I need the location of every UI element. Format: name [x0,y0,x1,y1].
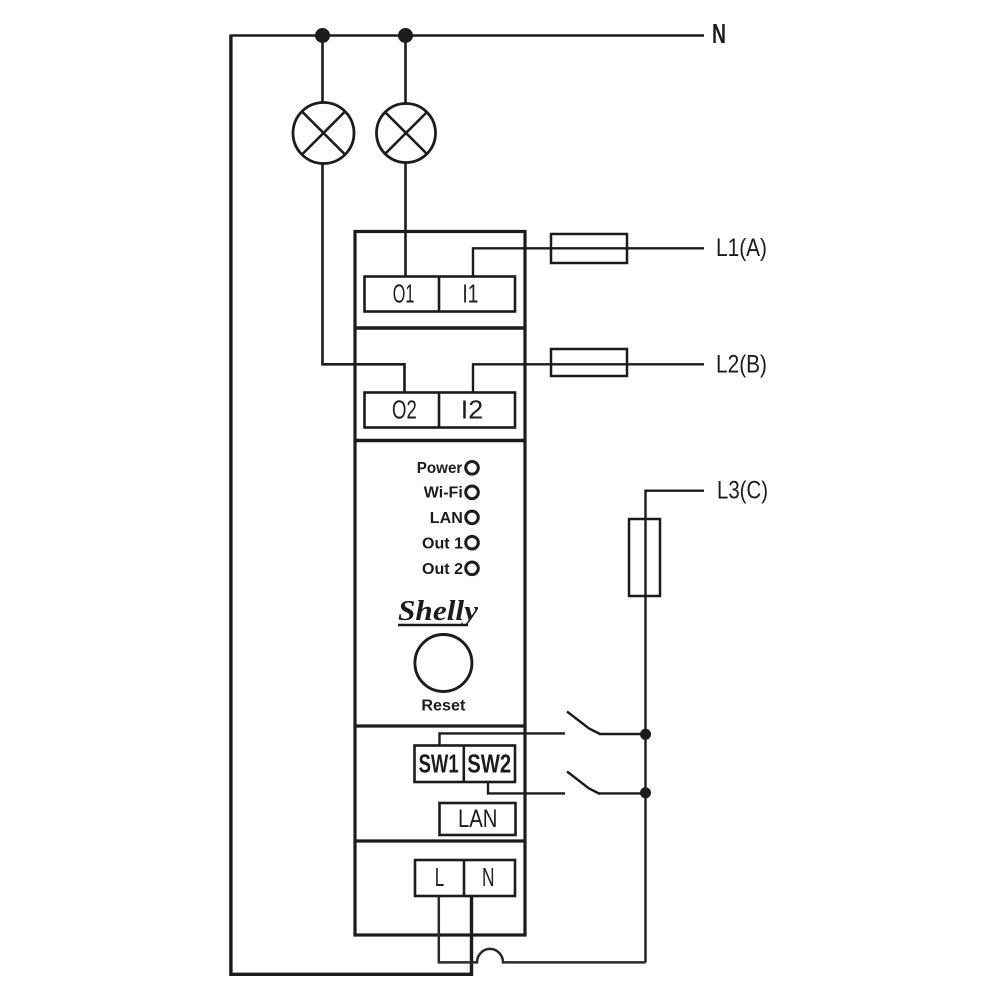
Shelly logo [398,595,478,627]
terminal block O2 I2 [365,393,516,428]
wire SW1 to switch S1 [440,733,566,746]
reset button [415,635,472,692]
svg-text:L1(A): L1(A) [716,234,767,262]
switch S2 blade [567,772,600,795]
svg-text:SW1: SW1 [419,750,459,778]
terminal label SW2 [467,750,511,778]
LED Out 2 [466,562,479,575]
svg-text:N: N [482,862,495,892]
lamp 2 [377,104,436,163]
svg-text:I1: I1 [462,280,478,308]
svg-text:LAN: LAN [430,510,463,527]
svg-text:O2: O2 [392,396,417,424]
fuse F3 [629,519,660,596]
wire N top horizontal [231,34,704,37]
LED LAN [466,511,479,524]
wire from N to lamp 1 [321,36,324,104]
wire SW2 to switch S2 [488,782,565,793]
terminal label I1 [462,280,478,308]
svg-text:L2(B): L2(B) [716,351,767,379]
wire switch S1 to L3 rail [599,733,646,735]
wire I2 to L2 [473,364,704,394]
fuse F2 [551,349,627,376]
node N label [712,18,726,49]
lamp 1 [293,103,354,164]
wire L terminal to L3 rail with hop over N wire [439,896,646,962]
svg-text:O1: O1 [393,280,415,308]
svg-text:Shelly: Shelly [398,595,478,627]
svg-text:SW2: SW2 [467,750,511,778]
terminal block LAN port [440,803,516,835]
terminal label O2 [392,396,417,424]
junction dot S1 on L3 rail [640,729,651,740]
LED label Wi-Fi [424,485,463,502]
node L1(A) label [716,234,767,262]
svg-text:Out 2: Out 2 [422,561,463,578]
terminal label SW1 [419,750,459,778]
device section divider 3 [355,724,525,727]
wire from N to lamp 2 [404,36,407,105]
wire lamp 1 to O2 terminal [323,164,405,395]
LED label Power [417,460,463,477]
reset label [421,698,466,715]
node L2(B) label [716,351,767,379]
wire L3 rail vertical [646,491,705,963]
terminal block L N [415,860,515,896]
svg-text:LAN: LAN [458,805,498,833]
terminal label I2 [461,396,483,424]
wire N left rail + bottom return + N terminal drop (bold) [231,35,472,975]
svg-text:Reset: Reset [421,698,466,715]
device section divider 1 [355,326,525,330]
terminal label L [435,862,445,892]
LED Out 1 [466,536,479,549]
LED label Out 2 [422,561,463,578]
LED Power [466,462,479,475]
terminal label N [482,862,495,892]
junction dot on N wire (lamp 2) [398,28,413,43]
device box Shelly Pro 2 outline [355,232,525,936]
svg-text:N: N [712,18,726,49]
fuse F1 [551,234,627,263]
svg-text:I2: I2 [461,396,483,424]
node L3(C) label [717,477,768,505]
junction dot S2 on L3 rail [640,787,651,798]
LED label Out 1 [422,536,463,553]
svg-text:L3(C): L3(C) [717,477,768,505]
terminal label O1 [393,280,415,308]
wire switch S2 to L3 rail [599,792,646,794]
switch S1 blade [567,712,600,735]
wire lamp 2 to O1 terminal [404,162,407,278]
svg-text:L: L [435,862,445,892]
terminal block O1 I1 [365,277,516,312]
LED label LAN [430,510,463,527]
terminal block SW1 SW2 [415,746,516,783]
LED Wi-Fi [466,486,479,499]
terminal label LAN [458,805,498,833]
junction dot on N wire (lamp 1) [315,28,330,43]
svg-text:Power: Power [417,460,463,477]
device section divider 2 [355,439,525,443]
device section divider 4 [355,839,525,842]
wire I1 to L1 [473,248,704,278]
svg-text:Out 1: Out 1 [422,536,463,553]
svg-text:Wi-Fi: Wi-Fi [424,485,463,502]
